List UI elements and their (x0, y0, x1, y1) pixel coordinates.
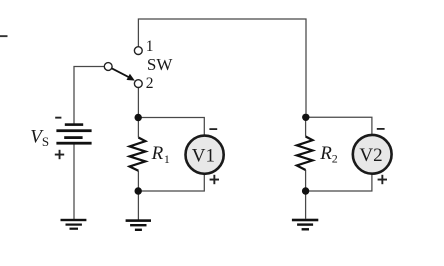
svg-text:V2: V2 (359, 145, 382, 166)
svg-text:R: R (151, 143, 164, 164)
svg-text:SW: SW (147, 55, 173, 74)
svg-text:V1: V1 (192, 145, 215, 166)
svg-text:1: 1 (164, 152, 170, 166)
svg-text:R: R (319, 143, 332, 164)
svg-text:1: 1 (146, 38, 154, 55)
svg-text:2: 2 (332, 152, 338, 166)
svg-text:S: S (42, 134, 49, 149)
svg-text:2: 2 (146, 75, 154, 92)
